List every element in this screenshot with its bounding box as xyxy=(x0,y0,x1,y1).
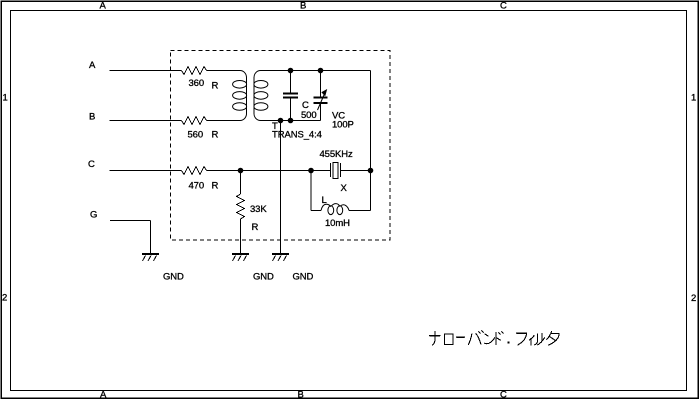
inductor L 10mH xyxy=(310,171,312,211)
svg-text:560: 560 xyxy=(188,130,204,141)
svg-text:G: G xyxy=(90,210,97,221)
svg-text:B: B xyxy=(300,1,306,12)
svg-text:470: 470 xyxy=(189,181,205,192)
crystal X 455KHz xyxy=(311,170,331,172)
ground symbol G terminal xyxy=(142,254,159,261)
svg-text:GND: GND xyxy=(253,272,274,283)
junction node T bottom xyxy=(278,118,283,123)
dashed filter block boundary xyxy=(171,51,391,241)
junction node C bottom xyxy=(288,118,293,123)
svg-text:455KHz: 455KHz xyxy=(320,149,354,160)
right rail wire xyxy=(370,71,372,211)
svg-text:C: C xyxy=(500,1,507,12)
katakana TA xyxy=(547,332,559,346)
katakana long dash xyxy=(456,336,464,338)
svg-text:R: R xyxy=(252,222,259,233)
svg-text:1: 1 xyxy=(3,93,8,104)
svg-text:500: 500 xyxy=(301,110,317,121)
transformer T TRANS_4:4 primary winding xyxy=(233,71,247,121)
wire A xyxy=(110,70,182,72)
wire A to transformer xyxy=(207,70,241,72)
katakana RU xyxy=(535,334,545,345)
svg-text:X: X xyxy=(341,183,348,194)
ground symbol 33K xyxy=(232,254,249,261)
wire C xyxy=(110,170,182,172)
svg-text:A: A xyxy=(100,1,107,12)
svg-text:R: R xyxy=(212,81,219,92)
svg-text:2: 2 xyxy=(691,293,696,304)
svg-text:R: R xyxy=(212,181,219,192)
resistor R1 360 xyxy=(182,67,207,75)
katakana NA xyxy=(430,332,441,346)
junction node top C xyxy=(288,68,293,73)
svg-text:A: A xyxy=(89,60,96,71)
svg-text:2: 2 xyxy=(2,293,7,304)
svg-text:33K: 33K xyxy=(250,204,267,215)
wire G xyxy=(110,220,151,222)
svg-text:A: A xyxy=(100,390,107,400)
junction node top VC xyxy=(318,68,323,73)
svg-text:B: B xyxy=(89,112,95,123)
svg-text:100P: 100P xyxy=(332,120,354,131)
katakana RO xyxy=(445,334,454,345)
svg-text:C: C xyxy=(500,390,507,400)
junction node 33K xyxy=(238,168,243,173)
katakana BA xyxy=(468,331,483,345)
svg-text:1: 1 xyxy=(691,93,696,104)
transformer T TRANS_4:4 secondary winding xyxy=(254,71,268,121)
svg-text:10mH: 10mH xyxy=(325,218,350,229)
junction node crystal left xyxy=(309,168,314,173)
vertical wire T-node to ground xyxy=(280,121,282,254)
variable capacitor VC 100P xyxy=(320,71,322,97)
capacitor C 500 xyxy=(290,71,292,93)
wire C to crystal node xyxy=(207,170,312,172)
junction node crystal right xyxy=(368,168,373,173)
svg-text:L: L xyxy=(322,195,327,206)
svg-text:GND: GND xyxy=(163,272,184,283)
resistor R2 560 xyxy=(182,117,207,125)
fullwidth period xyxy=(507,341,509,343)
svg-text:R: R xyxy=(212,130,219,141)
katakana small I xyxy=(530,336,535,346)
katakana FU xyxy=(517,333,527,345)
resistor R3 470 xyxy=(182,167,207,175)
svg-text:B: B xyxy=(298,390,304,400)
svg-text:360: 360 xyxy=(189,78,205,89)
katakana N xyxy=(485,334,495,344)
svg-text:TRANS_4:4: TRANS_4:4 xyxy=(272,130,322,141)
top rail wire xyxy=(261,70,371,72)
title katakana: narrow-band filter xyxy=(430,331,559,345)
wire B xyxy=(110,120,182,122)
resistor R4 33K xyxy=(240,171,242,195)
transformer bottom wire to VC corner xyxy=(261,120,321,122)
katakana DO xyxy=(496,332,503,345)
svg-text:C: C xyxy=(88,159,95,170)
wire B to transformer xyxy=(207,120,241,122)
ground symbol T-node xyxy=(272,254,289,261)
svg-text:GND: GND xyxy=(293,272,314,283)
